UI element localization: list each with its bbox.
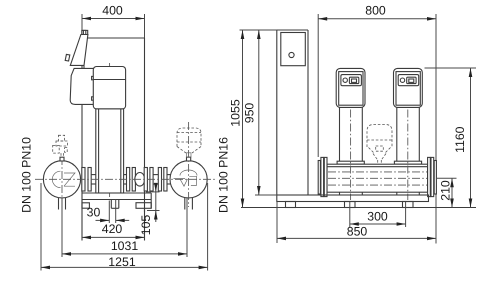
- feet (front): [286, 202, 414, 208]
- left foot (side): [82, 200, 89, 209]
- base plate (side): [82, 193, 151, 200]
- manifold pipe (front): [327, 164, 428, 192]
- dim 1160: [425, 68, 477, 208]
- pump 2 (front): [394, 68, 423, 107]
- dim 105 (vertical): [139, 183, 160, 235]
- dim 300: [350, 202, 406, 227]
- right foot (side): [136, 200, 151, 213]
- svg-text:1055: 1055: [229, 99, 243, 127]
- left circle (DN100 PN10 flange): [43, 157, 80, 203]
- dashed accessory above left circle: [53, 135, 68, 157]
- floor line: [241, 207, 476, 209]
- svg-text:400: 400: [102, 3, 123, 17]
- pillar with cabinet (front): [277, 30, 308, 195]
- svg-text:30: 30: [87, 205, 101, 219]
- right manifold flange: [428, 157, 437, 196]
- pipe centerline horizontal: [35, 178, 215, 180]
- dim 1251: [41, 183, 208, 271]
- svg-text:800: 800: [365, 3, 386, 17]
- dim 420: [82, 222, 145, 239]
- pump column (side): [96, 109, 124, 193]
- svg-text:420: 420: [102, 222, 123, 236]
- svg-text:1160: 1160: [453, 126, 467, 153]
- dim 400 line: [82, 3, 145, 38]
- svg-text:1251: 1251: [108, 255, 136, 269]
- dashed tank above right circle: [177, 128, 201, 153]
- cabinet (side view, tilted): [65, 30, 88, 68]
- dim 950: [242, 30, 277, 195]
- flange plates group 3: [158, 168, 167, 192]
- pump 2 column: [394, 107, 421, 164]
- svg-text:950: 950: [242, 103, 256, 124]
- pump 1 column: [337, 107, 364, 164]
- manifold supports: [340, 192, 420, 195]
- pump head (side): [70, 68, 93, 104]
- svg-text:300: 300: [367, 209, 388, 223]
- right circle (DN100 PN16 flange): [170, 122, 207, 207]
- svg-text:DN 100 PN10: DN 100 PN10: [19, 137, 33, 213]
- dim 850: [277, 202, 436, 244]
- pipe wall segments: [91, 175, 170, 184]
- dim 210: [437, 178, 457, 207]
- outline box: [82, 37, 145, 39]
- svg-text:DN 100 PN16: DN 100 PN16: [216, 137, 230, 213]
- left manifold flange: [318, 157, 327, 196]
- base (front): [277, 195, 429, 202]
- dim 30: [87, 200, 130, 224]
- svg-text:850: 850: [347, 224, 368, 238]
- pump 1 (front): [336, 68, 365, 107]
- flexible coupling group 2: [127, 168, 154, 192]
- pump centerlines: [350, 110, 352, 201]
- pump centerline: [109, 63, 111, 200]
- svg-text:105: 105: [139, 215, 153, 236]
- dim 800: [318, 3, 436, 243]
- dim 1055: [229, 30, 278, 208]
- circle support legs: [59, 198, 193, 210]
- motor (side view): [93, 67, 125, 109]
- flange plates group 1: [82, 168, 91, 192]
- dim 1031: [62, 198, 187, 257]
- dashed tank (front): [367, 125, 392, 165]
- svg-text:210: 210: [439, 180, 453, 201]
- middle support foot: [111, 200, 119, 209]
- svg-text:1031: 1031: [111, 239, 139, 253]
